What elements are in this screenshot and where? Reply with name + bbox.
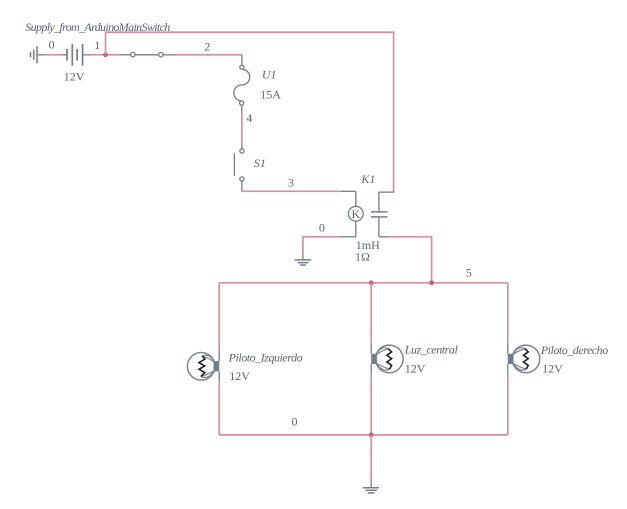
switch J1 (closed)	[120, 52, 175, 56]
svg-text:0: 0	[292, 415, 298, 429]
svg-text:5: 5	[466, 266, 472, 280]
svg-text:K1: K1	[360, 172, 375, 186]
wire node 5: contact to lamp bus	[388, 237, 432, 283]
svg-text:S1: S1	[254, 156, 266, 170]
svg-text:0: 0	[49, 38, 55, 52]
switch S1 (open)	[234, 149, 244, 181]
junction node 1	[103, 52, 108, 57]
svg-text:U1: U1	[262, 67, 277, 81]
wire: lamp bus top	[219, 282, 508, 284]
svg-text:15A: 15A	[260, 88, 281, 102]
lamp Piloto_derecho	[508, 345, 540, 373]
battery V1	[67, 44, 83, 66]
wire: right branch (Piloto_derecho)	[507, 283, 509, 435]
junction node 5 (drop point)	[429, 280, 434, 285]
wire: left branch (Piloto_Izquierdo)	[218, 283, 220, 435]
relay K1 contact	[371, 190, 394, 237]
svg-text:2: 2	[204, 39, 210, 53]
wire: ground to battery	[37, 54, 67, 56]
wire node 3: S1 to relay coil	[242, 181, 356, 191]
wire: middle branch (Luz_central)	[370, 283, 372, 435]
svg-text:Piloto_derecho: Piloto_derecho	[540, 343, 609, 357]
wire: bottom bus to ground	[370, 435, 372, 488]
ground GND2	[295, 260, 312, 265]
svg-text:12V: 12V	[405, 361, 426, 375]
svg-text:1: 1	[94, 38, 100, 52]
svg-text:3: 3	[288, 176, 294, 190]
lamp Piloto_Izquierdo	[187, 353, 219, 381]
svg-text:4: 4	[246, 111, 252, 125]
svg-text:12V: 12V	[542, 362, 563, 376]
wire: top net (node 1 riser, top run, drop to contact)	[106, 32, 394, 190]
svg-text:Luz_central: Luz_central	[404, 342, 459, 356]
lamp Luz_central	[371, 345, 403, 373]
wire node 0: coil to ground	[303, 237, 356, 260]
svg-text:12V: 12V	[64, 70, 85, 84]
svg-text:K: K	[351, 207, 360, 221]
svg-text:12V: 12V	[229, 369, 250, 383]
fuse U1	[234, 65, 250, 105]
wire node 4: fuse to S1	[241, 105, 243, 149]
wire: battery to switch (node 1)	[83, 54, 121, 56]
svg-text:1Ω: 1Ω	[355, 250, 370, 264]
svg-text:Piloto_Izquierdo: Piloto_Izquierdo	[228, 350, 303, 364]
ground GND3	[363, 488, 379, 493]
junction (top of Luz_central)	[369, 280, 374, 285]
wire: lamp bus bottom (node 0)	[219, 434, 508, 436]
relay K1 coil	[348, 191, 363, 237]
junction (bottom of Luz_central)	[369, 433, 374, 438]
svg-text:0: 0	[319, 220, 325, 234]
ground GND1 (battery negative, rotated left)	[31, 46, 38, 63]
wire node 2: switch to fuse	[175, 55, 242, 65]
